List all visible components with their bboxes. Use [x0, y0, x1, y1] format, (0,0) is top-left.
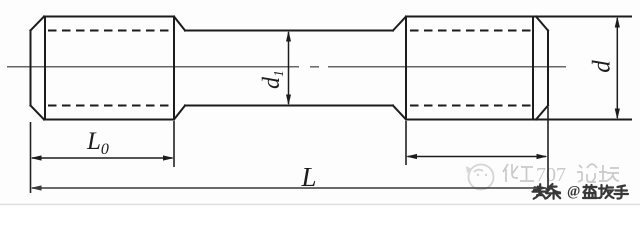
svg-text:d: d	[589, 60, 616, 73]
svg-text:L: L	[301, 162, 317, 192]
svg-text:@: @	[567, 184, 580, 200]
svg-text:707: 707	[536, 164, 566, 186]
